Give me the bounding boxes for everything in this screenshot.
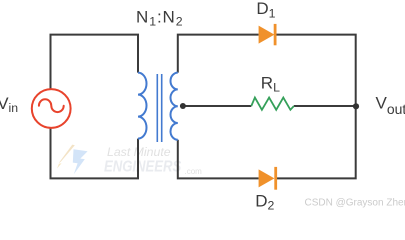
wire: secondary bottom to D2 anode: [178, 140, 259, 179]
svg-text:.com: .com: [185, 167, 203, 176]
transformer T1 core: [157, 74, 161, 142]
node: Vout junction: [353, 103, 359, 109]
svg-text:CSDN @Grayson Zheng: CSDN @Grayson Zheng: [305, 197, 405, 208]
resistor RL zigzag: [251, 98, 294, 110]
node: center tap junction: [180, 103, 186, 109]
wire: secondary top to D1 anode: [178, 35, 259, 73]
diode D1 triangle: [259, 26, 275, 44]
ac source sine wave: [39, 99, 64, 112]
wire: D2 cathode to Vout node: [275, 106, 356, 178]
ac source V1 circle: [32, 89, 71, 128]
svg-text:ENGINEERS: ENGINEERS: [104, 158, 181, 175]
diode D1 cathode bar: [274, 24, 277, 45]
wire: Vin bottom to transformer primary: [51, 128, 139, 178]
transformer T1 primary winding: [138, 73, 147, 139]
transformer T1 secondary winding: [171, 73, 178, 140]
wire: Vin top to transformer primary: [51, 35, 139, 89]
wire: RL to Vout node: [294, 105, 356, 107]
watermark lightning bolt: [57, 145, 88, 175]
diode D2 triangle: [259, 169, 275, 187]
diode D2 cathode bar: [274, 167, 277, 190]
wire: center tap to RL: [180, 105, 251, 107]
wire: D1 cathode to Vout node: [275, 35, 356, 106]
